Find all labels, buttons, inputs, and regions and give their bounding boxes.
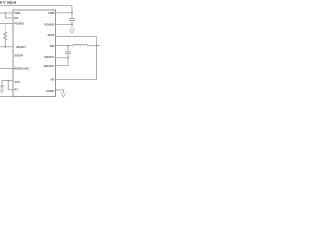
node RESET junction [4, 46, 6, 48]
node CBOOT junction [67, 57, 69, 59]
wire VIN rail drop to C2 [71, 6, 73, 18]
wire R1 to RESET [4, 41, 6, 47]
node VOUT junction [96, 45, 98, 47]
capacitor C3 VCC bypass [1, 81, 3, 86]
wire C4 to CBOOT pin [56, 54, 69, 58]
wire BIAS to VOUT [56, 37, 97, 46]
svg-text:VIN2: VIN2 [48, 11, 55, 15]
wire C2 bottom to ground [71, 20, 73, 26]
wire L1 to VOUT [87, 45, 100, 47]
svg-text:RESET: RESET [17, 45, 27, 49]
node VCC junction [7, 80, 9, 82]
capacitor C2 input bypass [69, 19, 75, 21]
node VIN1/EN junction [4, 12, 6, 14]
node PGND2 junction [71, 23, 73, 25]
wire SW out [56, 45, 74, 47]
svg-text:FB: FB [51, 78, 55, 82]
svg-text:VIN1: VIN1 [14, 11, 21, 15]
wire PGND2 stub [56, 23, 73, 25]
inductor L1 [73, 44, 87, 45]
svg-text:BIAS: BIAS [48, 33, 55, 37]
wire bottom ground rail [0, 96, 13, 98]
ground input GND arrow [70, 26, 75, 33]
svg-text:VCC: VCC [14, 80, 20, 84]
svg-text:CBOOT: CBOOT [44, 55, 55, 59]
svg-text:6 V input: 6 V input [0, 1, 17, 5]
wire EN tie to VIN [5, 13, 13, 18]
wire AGND stub [56, 90, 64, 93]
wire RESET left [0, 46, 13, 48]
ground VCC cap ground arrow [0, 90, 3, 93]
wire VIN2 stub [56, 12, 73, 14]
svg-text:EN: EN [14, 16, 18, 20]
node VIN2 junction [71, 12, 73, 14]
wire VIN top rail [0, 5, 72, 7]
wire VCC to RT [7, 81, 9, 90]
wire CBOOT branch down from SW [67, 46, 69, 52]
svg-text:SW: SW [50, 44, 55, 48]
wire RT stub [8, 89, 13, 91]
node SW/CBOOT junction [67, 45, 69, 47]
ground AGND arrow [61, 93, 66, 97]
svg-text:PGND2: PGND2 [45, 22, 55, 26]
resistor R1 RESET pullup [4, 24, 6, 33]
wire MODE/SYNC left [0, 68, 13, 70]
svg-text:SS/SP: SS/SP [14, 54, 22, 58]
wire FB to VOUT [56, 46, 97, 80]
svg-text:RBOOT: RBOOT [44, 64, 55, 68]
wire PGND1 left [0, 23, 13, 25]
svg-text:PGND1: PGND1 [14, 22, 24, 26]
wire VIN1 left [0, 12, 13, 14]
capacitor C4 bootstrap [65, 52, 71, 54]
wire VCC left [2, 80, 13, 82]
IC U1 buck converter box [13, 10, 56, 97]
svg-text:MODE/SYNC: MODE/SYNC [14, 67, 30, 71]
svg-text:AGND: AGND [46, 89, 54, 93]
svg-text:RT: RT [14, 88, 18, 92]
wire CBOOT to RBOOT [56, 58, 69, 66]
